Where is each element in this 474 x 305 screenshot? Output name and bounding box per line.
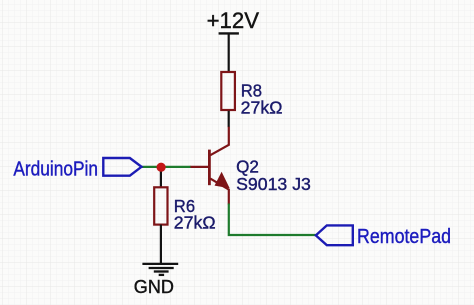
label R6 27k — [174, 196, 216, 232]
svg-text:RemotePad: RemotePad — [357, 226, 451, 248]
port RemotePad — [316, 225, 451, 248]
label Q2 S9013 J3 — [236, 157, 311, 194]
collector pin — [210, 127, 229, 155]
port ArduinoPin — [13, 158, 141, 181]
svg-text:27kΩ: 27kΩ — [174, 212, 216, 232]
svg-text:S9013 J3: S9013 J3 — [236, 174, 311, 194]
svg-text:+12V: +12V — [207, 8, 260, 33]
base bar — [208, 150, 211, 186]
ground GND — [142, 264, 178, 275]
wire: R6 bottom to ground — [160, 225, 162, 264]
wire: junction to R6 top — [160, 167, 162, 188]
wire: ArduinoPin port to Q2 base (green) — [142, 166, 191, 168]
svg-text:GND: GND — [134, 277, 174, 297]
transistor Q2 — [190, 127, 229, 205]
wire: Q2 emitter to RemotePad port (green) — [229, 204, 316, 236]
label R8 27k — [241, 80, 283, 117]
resistor R6 — [154, 187, 167, 224]
svg-text:ArduinoPin: ArduinoPin — [13, 159, 98, 181]
wire: +12V bar to R8 top — [228, 33, 230, 72]
power flag +12V — [207, 8, 260, 33]
wire: R8 bottom to Q2 collector — [228, 111, 230, 127]
junction node — [157, 163, 166, 172]
base pin — [190, 166, 209, 168]
resistor R8 — [221, 72, 235, 110]
emitter pin — [210, 179, 229, 205]
svg-text:27kΩ: 27kΩ — [241, 98, 283, 118]
emitter arrow — [215, 173, 229, 188]
